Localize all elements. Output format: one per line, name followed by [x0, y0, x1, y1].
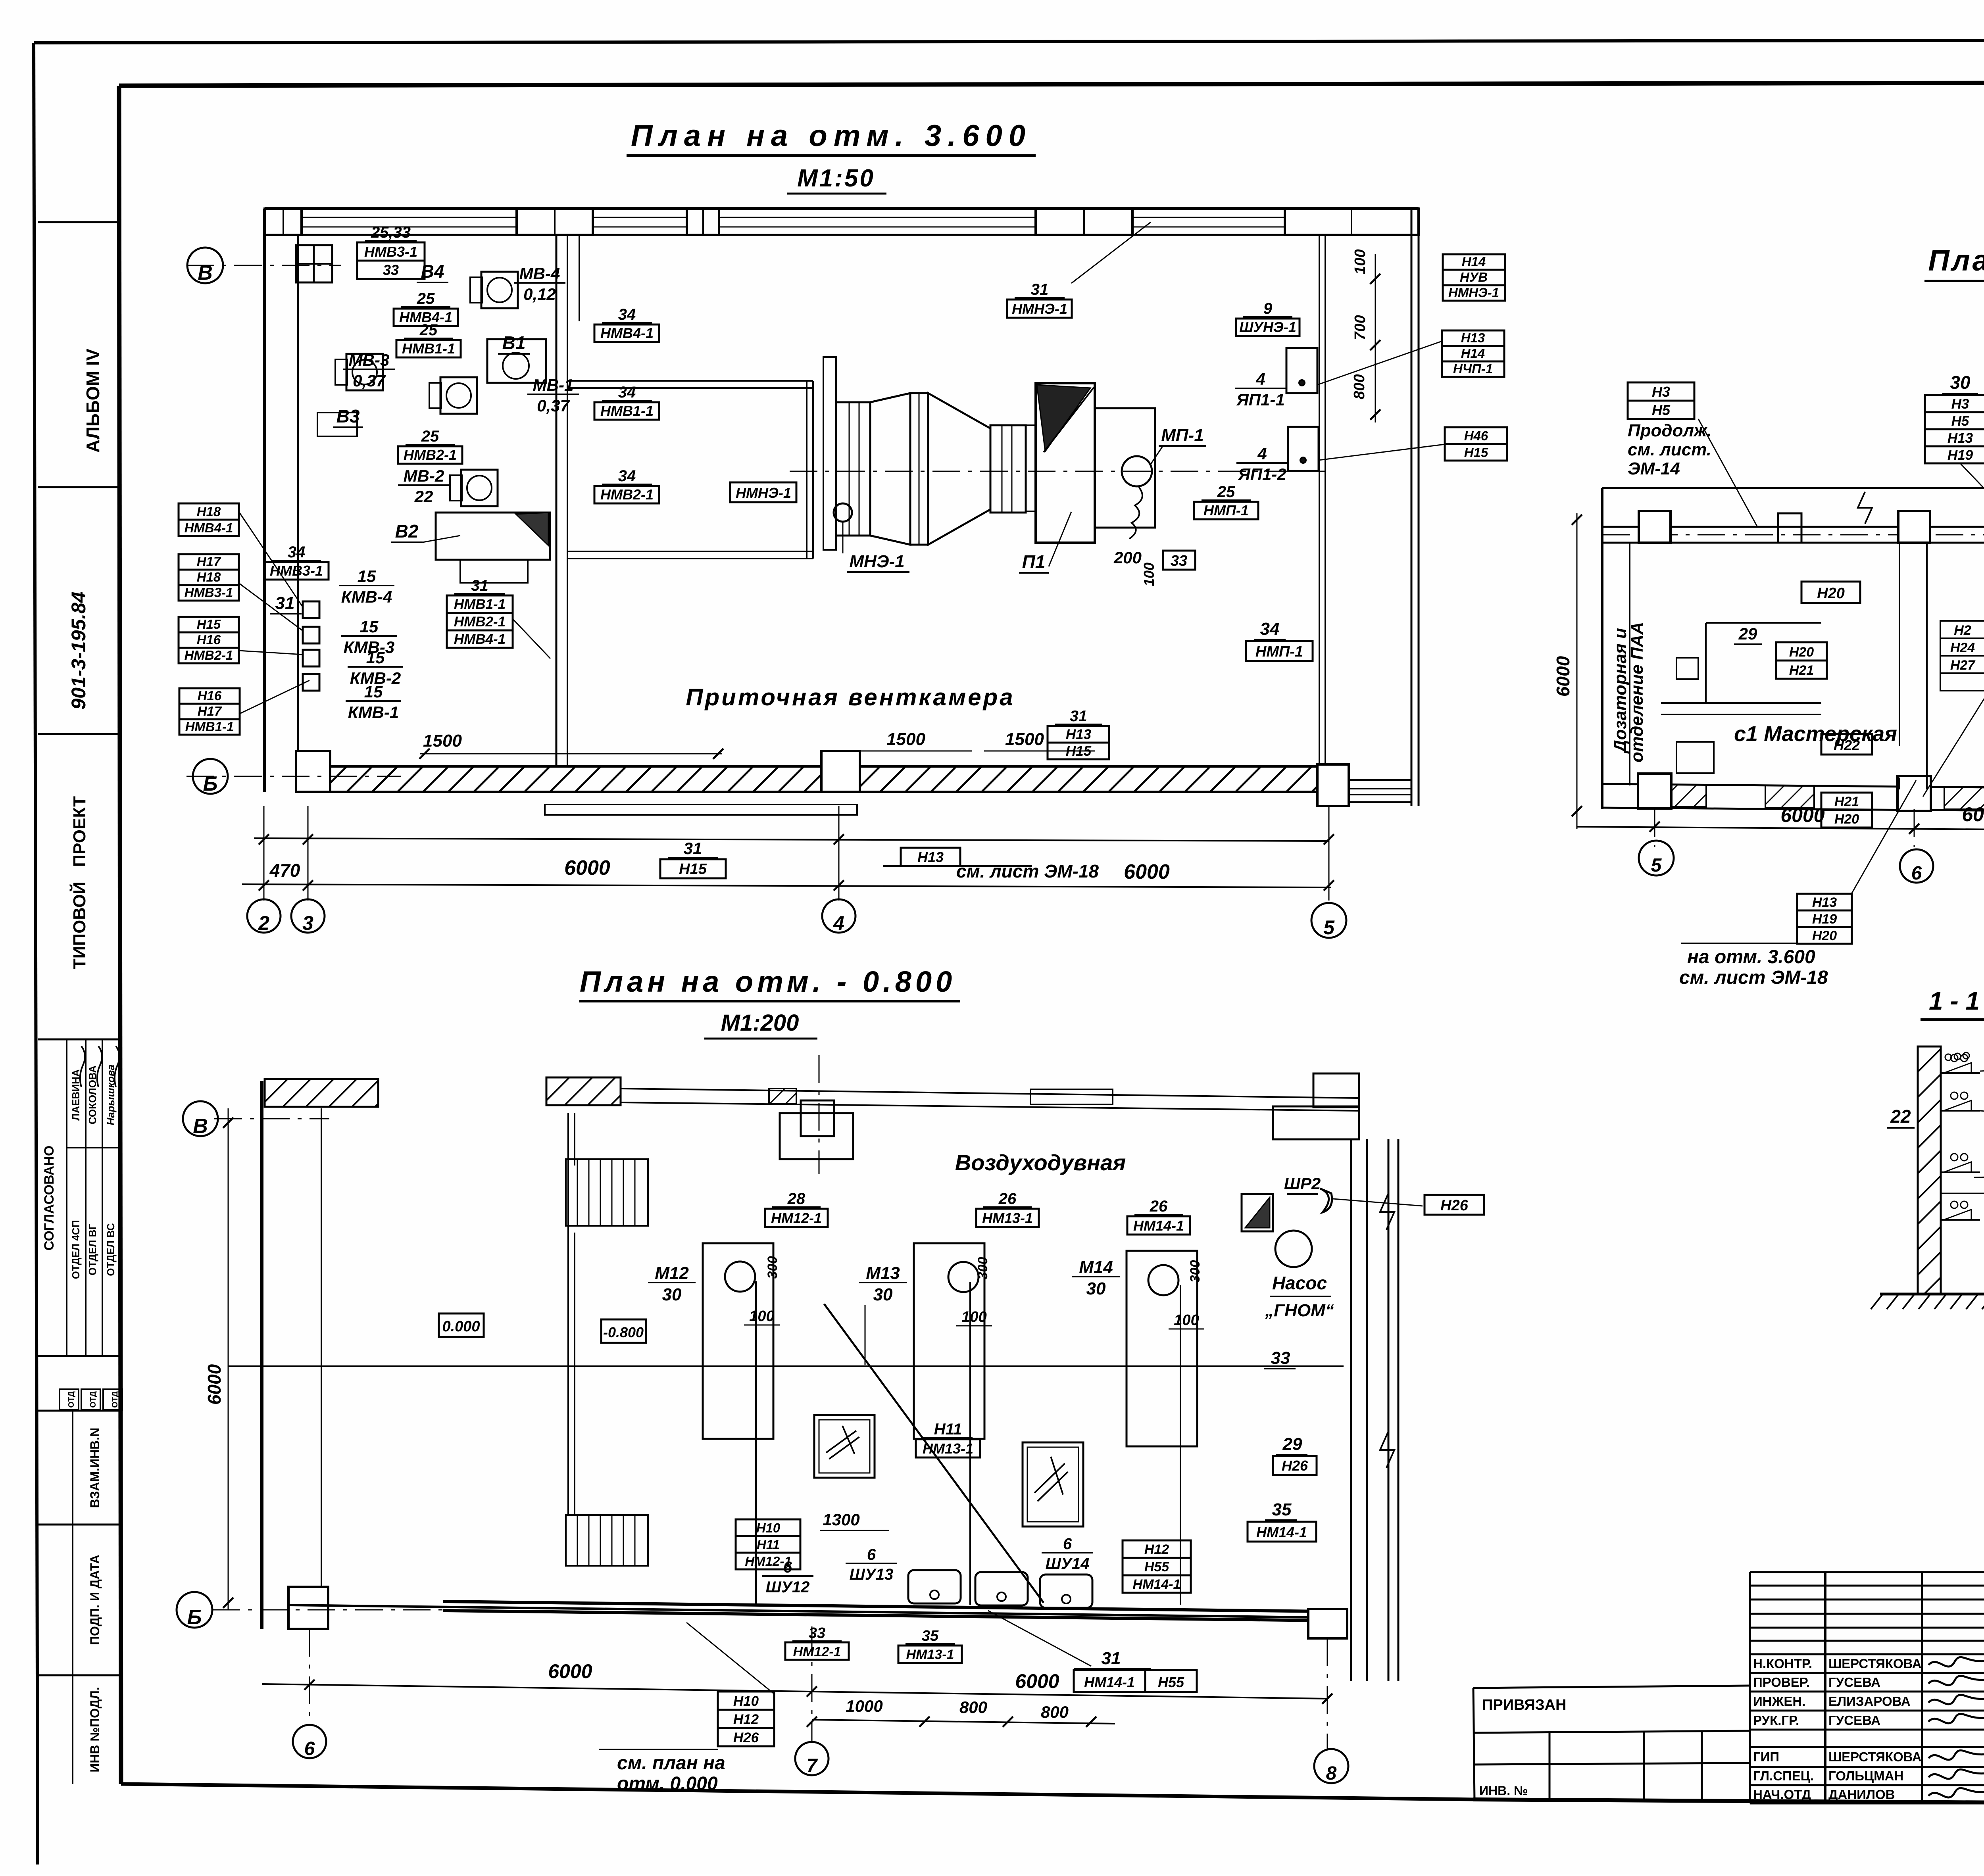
svg-text:0.000: 0.000 [442, 1318, 480, 1335]
svg-text:31: 31 [275, 593, 295, 613]
svg-text:31: 31 [1031, 281, 1049, 298]
svg-text:НМВ1-1: НМВ1-1 [454, 597, 506, 612]
svg-text:ШЕРСТЯКОВА: ШЕРСТЯКОВА [1828, 1656, 1922, 1671]
svg-text:Н15: Н15 [197, 617, 221, 632]
svg-text:28: 28 [787, 1190, 806, 1208]
svg-text:МВ-1: МВ-1 [533, 376, 574, 394]
svg-text:Н26: Н26 [733, 1730, 759, 1745]
svg-text:см. план на: см. план на [617, 1753, 725, 1774]
svg-text:НУВ: НУВ [1460, 270, 1488, 284]
svg-text:Н21: Н21 [1834, 794, 1859, 809]
svg-text:Б: Б [187, 1606, 202, 1629]
svg-text:3: 3 [302, 912, 313, 934]
svg-text:6000: 6000 [204, 1364, 225, 1405]
svg-text:300: 300 [1188, 1260, 1203, 1283]
svg-text:6000: 6000 [1124, 860, 1170, 883]
svg-text:ШУНЭ-1: ШУНЭ-1 [1239, 319, 1296, 335]
svg-text:НМП-1: НМП-1 [1255, 643, 1303, 660]
svg-text:0,37: 0,37 [537, 396, 570, 415]
svg-text:НМНЭ-1: НМНЭ-1 [736, 485, 791, 501]
svg-text:Н11: Н11 [757, 1537, 780, 1552]
svg-text:НМ12-1: НМ12-1 [771, 1210, 822, 1226]
svg-text:ИНВ. №: ИНВ. № [1479, 1784, 1528, 1798]
svg-text:Н55: Н55 [1158, 1674, 1184, 1690]
svg-text:30: 30 [662, 1285, 682, 1304]
svg-text:6000: 6000 [548, 1660, 592, 1682]
svg-text:35: 35 [1272, 1500, 1292, 1519]
svg-text:ЯП1-2: ЯП1-2 [1238, 465, 1286, 484]
svg-text:Н55: Н55 [1144, 1559, 1169, 1575]
svg-text:ГЛ.СПЕЦ.: ГЛ.СПЕЦ. [1753, 1768, 1814, 1783]
svg-text:НМВ4-1: НМВ4-1 [185, 520, 233, 535]
svg-text:НМНЭ-1: НМНЭ-1 [1012, 301, 1067, 317]
svg-text:34: 34 [288, 543, 306, 561]
svg-text:1 - 1: 1 - 1 [1929, 987, 1980, 1015]
svg-text:31: 31 [684, 839, 702, 858]
svg-text:План на отм. - 0.800: План на отм. - 0.800 [580, 965, 956, 998]
svg-text:НМВ3-1: НМВ3-1 [270, 563, 323, 579]
svg-text:НМНЭ-1: НМНЭ-1 [1448, 285, 1499, 300]
svg-text:НМВ1-1: НМВ1-1 [600, 403, 654, 419]
svg-text:5: 5 [1323, 916, 1335, 939]
svg-text:МВ-4: МВ-4 [519, 264, 560, 283]
svg-text:Н27: Н27 [1950, 658, 1976, 673]
svg-text:29: 29 [1738, 624, 1757, 643]
svg-text:НМ14-1: НМ14-1 [1133, 1577, 1181, 1592]
svg-text:„ГНОМ“: „ГНОМ“ [1265, 1301, 1334, 1320]
svg-text:25: 25 [421, 428, 439, 445]
svg-text:26: 26 [998, 1190, 1017, 1208]
svg-text:Н22: Н22 [1834, 737, 1860, 753]
svg-text:-0.800: -0.800 [603, 1324, 644, 1340]
svg-text:В: В [198, 261, 213, 284]
svg-text:26: 26 [1150, 1198, 1168, 1215]
svg-text:НМ14-1: НМ14-1 [1256, 1524, 1307, 1540]
svg-text:РУК.ГР.: РУК.ГР. [1753, 1713, 1799, 1728]
svg-text:НМВ4-1: НМВ4-1 [454, 632, 506, 647]
svg-text:34: 34 [1260, 619, 1280, 639]
svg-text:М1:50: М1:50 [797, 165, 875, 192]
svg-text:4: 4 [1255, 370, 1265, 388]
svg-text:100: 100 [1352, 249, 1369, 274]
svg-text:АЛЬБОМ IV: АЛЬБОМ IV [83, 348, 103, 453]
svg-text:Н20: Н20 [1817, 585, 1845, 602]
svg-text:П1: П1 [1022, 551, 1046, 572]
svg-text:15: 15 [364, 682, 383, 701]
svg-text:31: 31 [1102, 1649, 1121, 1668]
svg-text:4: 4 [833, 912, 844, 934]
svg-text:31: 31 [471, 577, 488, 594]
svg-text:ВЗАМ.ИНВ.N: ВЗАМ.ИНВ.N [88, 1428, 102, 1508]
svg-text:100: 100 [961, 1309, 986, 1325]
svg-text:В3: В3 [336, 406, 360, 426]
svg-text:1500: 1500 [423, 731, 462, 751]
svg-text:Н46: Н46 [1464, 428, 1488, 443]
svg-text:ШУ14: ШУ14 [1046, 1555, 1090, 1573]
svg-text:25: 25 [417, 290, 435, 307]
svg-text:ПОДП. И ДАТА: ПОДП. И ДАТА [88, 1555, 102, 1645]
svg-text:2: 2 [258, 912, 269, 934]
svg-text:Н15: Н15 [679, 861, 707, 878]
svg-text:300: 300 [975, 1257, 990, 1280]
svg-text:ГУСЕВА: ГУСЕВА [1828, 1713, 1880, 1728]
svg-text:33: 33 [383, 262, 399, 278]
svg-text:ОТД: ОТД [111, 1391, 119, 1408]
svg-text:100: 100 [749, 1308, 774, 1325]
svg-text:25: 25 [419, 321, 438, 339]
svg-text:Н5: Н5 [1951, 413, 1969, 429]
svg-text:НМВ3-1: НМВ3-1 [364, 244, 417, 260]
svg-text:Н24: Н24 [1950, 640, 1975, 655]
svg-text:М14: М14 [1079, 1258, 1113, 1277]
svg-text:Н12: Н12 [733, 1712, 759, 1727]
svg-text:6: 6 [867, 1546, 876, 1563]
svg-text:ТИПОВОЙ ПРОЕКТ: ТИПОВОЙ ПРОЕКТ [69, 796, 89, 969]
svg-text:отделение ПАА: отделение ПАА [1627, 622, 1647, 762]
svg-text:План на отм. 0.000: План на отм. 0.000 [1928, 244, 1984, 277]
svg-text:100: 100 [1174, 1312, 1199, 1329]
svg-text:4: 4 [1257, 444, 1267, 463]
svg-text:НАЧ.ОТД: НАЧ.ОТД [1753, 1787, 1811, 1802]
svg-text:см. лист.: см. лист. [1628, 440, 1711, 459]
svg-text:6: 6 [1063, 1535, 1072, 1553]
svg-text:НМ14-1: НМ14-1 [1133, 1217, 1184, 1234]
svg-text:В: В [193, 1115, 208, 1138]
svg-text:15: 15 [360, 617, 379, 636]
svg-text:Н14: Н14 [1462, 254, 1486, 269]
svg-text:Н3: Н3 [1652, 384, 1670, 400]
svg-text:Приточная венткамера: Приточная венткамера [686, 684, 1015, 710]
svg-text:Н26: Н26 [1440, 1197, 1469, 1214]
svg-text:34: 34 [618, 384, 636, 401]
svg-text:0,12: 0,12 [523, 285, 556, 303]
svg-text:ОТДЕЛ 4СП: ОТДЕЛ 4СП [70, 1220, 82, 1279]
svg-text:25,33: 25,33 [371, 224, 411, 241]
svg-text:Н19: Н19 [1947, 447, 1973, 463]
svg-text:ОТД: ОТД [89, 1391, 98, 1408]
svg-text:Н10: Н10 [733, 1694, 759, 1709]
svg-text:1500: 1500 [886, 730, 925, 749]
svg-text:Н17: Н17 [198, 704, 222, 718]
svg-text:М1:200: М1:200 [721, 1010, 799, 1036]
svg-text:МП-1: МП-1 [1161, 426, 1203, 445]
svg-text:300: 300 [765, 1256, 780, 1279]
svg-text:34: 34 [618, 467, 636, 485]
svg-text:ПРОВЕР.: ПРОВЕР. [1753, 1675, 1810, 1690]
svg-text:МВ-2: МВ-2 [404, 467, 444, 485]
svg-text:Н20: Н20 [1789, 645, 1814, 660]
svg-text:7: 7 [807, 1755, 818, 1776]
svg-text:Продолж.: Продолж. [1628, 421, 1711, 440]
svg-text:ШР2: ШР2 [1284, 1174, 1321, 1193]
svg-text:на отм. 3.600: на отм. 3.600 [1687, 947, 1815, 968]
svg-text:15: 15 [358, 567, 376, 586]
svg-text:НМ13-1: НМ13-1 [923, 1440, 973, 1457]
svg-text:НМВ1-1: НМВ1-1 [185, 719, 234, 734]
svg-text:34: 34 [618, 306, 636, 323]
svg-text:НМ12-1: НМ12-1 [793, 1644, 841, 1659]
svg-text:Н10: Н10 [756, 1521, 781, 1535]
svg-text:Н20: Н20 [1834, 812, 1859, 827]
svg-text:6: 6 [304, 1738, 315, 1759]
svg-text:Н12: Н12 [1144, 1542, 1169, 1557]
svg-text:ОТДЕЛ ВС: ОТДЕЛ ВС [105, 1223, 117, 1276]
svg-text:СОГЛАСОВАНО: СОГЛАСОВАНО [42, 1146, 57, 1251]
svg-text:НЧП-1: НЧП-1 [1453, 361, 1493, 376]
svg-text:Н13: Н13 [1066, 727, 1092, 742]
svg-text:Н13: Н13 [917, 849, 944, 865]
svg-text:ШЕРСТЯКОВА: ШЕРСТЯКОВА [1828, 1749, 1922, 1764]
svg-text:ГУСЕВА: ГУСЕВА [1828, 1675, 1880, 1690]
svg-text:отм. 0.000: отм. 0.000 [617, 1773, 718, 1794]
svg-text:М13: М13 [866, 1263, 900, 1283]
svg-text:6000: 6000 [1553, 656, 1573, 697]
svg-text:Н14: Н14 [1461, 346, 1485, 361]
svg-text:Н15: Н15 [1464, 445, 1488, 460]
svg-text:31: 31 [1070, 708, 1087, 725]
svg-text:800: 800 [1041, 1703, 1069, 1721]
svg-text:ДАНИЛОВ: ДАНИЛОВ [1828, 1787, 1895, 1802]
svg-text:Воздуходувная: Воздуходувная [955, 1150, 1126, 1175]
svg-text:30: 30 [1950, 372, 1971, 393]
svg-text:Н18: Н18 [197, 504, 221, 519]
svg-text:В1: В1 [502, 332, 526, 353]
svg-text:30: 30 [873, 1285, 893, 1304]
svg-text:НМВ3-1: НМВ3-1 [185, 585, 233, 600]
svg-text:ЭМ-14: ЭМ-14 [1628, 459, 1680, 478]
svg-text:800: 800 [959, 1698, 987, 1717]
svg-text:9: 9 [1263, 300, 1273, 317]
svg-text:НМВ4-1: НМВ4-1 [600, 325, 654, 341]
svg-text:Н3: Н3 [1951, 396, 1969, 412]
svg-text:33: 33 [1171, 553, 1187, 569]
svg-text:НМ13-1: НМ13-1 [906, 1647, 954, 1662]
svg-text:6000: 6000 [1780, 804, 1824, 826]
svg-text:Н13: Н13 [1812, 895, 1837, 910]
svg-text:М12: М12 [655, 1263, 689, 1283]
svg-text:29: 29 [1282, 1434, 1302, 1454]
svg-text:1500: 1500 [1005, 730, 1044, 749]
svg-text:6000: 6000 [1015, 1670, 1059, 1692]
svg-text:Н16: Н16 [198, 688, 222, 703]
svg-text:Н5: Н5 [1652, 402, 1671, 418]
svg-text:НМП-1: НМП-1 [1203, 502, 1249, 518]
svg-text:Н11: Н11 [934, 1421, 962, 1438]
svg-text:22: 22 [1890, 1106, 1911, 1127]
svg-text:Н19: Н19 [1812, 912, 1837, 927]
svg-text:Н21: Н21 [1789, 663, 1814, 678]
svg-text:ШУ12: ШУ12 [766, 1578, 810, 1596]
svg-text:6: 6 [1911, 863, 1922, 884]
svg-text:ИНЖЕН.: ИНЖЕН. [1753, 1694, 1805, 1709]
svg-text:1300: 1300 [823, 1510, 859, 1529]
svg-text:КМВ-4: КМВ-4 [341, 588, 392, 606]
svg-text:ШУ13: ШУ13 [850, 1566, 894, 1583]
svg-text:ЕЛИЗАРОВА: ЕЛИЗАРОВА [1828, 1694, 1911, 1709]
svg-text:Н2: Н2 [1954, 623, 1971, 638]
svg-text:НМВ2-1: НМВ2-1 [185, 648, 233, 662]
svg-text:1000: 1000 [846, 1697, 882, 1715]
svg-text:25: 25 [1217, 483, 1235, 501]
svg-text:Н.КОНТР.: Н.КОНТР. [1753, 1656, 1812, 1671]
svg-text:8: 8 [1326, 1763, 1337, 1784]
svg-text:100: 100 [1141, 563, 1157, 586]
svg-text:Н16: Н16 [197, 632, 221, 647]
svg-text:ГИП: ГИП [1753, 1749, 1779, 1764]
svg-text:Н13: Н13 [1461, 330, 1485, 345]
svg-text:НМВ2-1: НМВ2-1 [600, 486, 654, 503]
svg-text:НМ13-1: НМ13-1 [982, 1210, 1033, 1226]
svg-text:НМВ2-1: НМВ2-1 [454, 614, 506, 630]
svg-text:6000: 6000 [564, 856, 610, 879]
svg-text:6000: 6000 [1962, 803, 1984, 826]
svg-text:НМ12-1: НМ12-1 [745, 1554, 791, 1569]
svg-text:см. лист ЭМ-18: см. лист ЭМ-18 [956, 861, 1099, 881]
svg-text:30: 30 [1086, 1279, 1106, 1298]
svg-text:700: 700 [1352, 315, 1369, 340]
svg-text:200: 200 [1113, 548, 1142, 567]
svg-text:МВ-3: МВ-3 [349, 351, 390, 369]
svg-text:Насос: Насос [1272, 1273, 1327, 1293]
svg-text:План на отм. 3.600: План на отм. 3.600 [631, 119, 1032, 153]
svg-text:22: 22 [414, 487, 433, 506]
svg-text:ПРИВЯЗАН: ПРИВЯЗАН [1482, 1697, 1566, 1713]
svg-text:33: 33 [809, 1625, 825, 1642]
svg-text:Н18: Н18 [197, 570, 221, 584]
svg-text:НМВ1-1: НМВ1-1 [402, 340, 455, 357]
svg-text:В4: В4 [421, 261, 444, 282]
svg-text:901-3-195.84: 901-3-195.84 [67, 591, 90, 709]
svg-text:НМ14-1: НМ14-1 [1084, 1674, 1135, 1690]
svg-text:5: 5 [1651, 855, 1662, 876]
svg-text:Н17: Н17 [197, 554, 221, 569]
svg-text:0,37: 0,37 [353, 371, 386, 390]
svg-text:ОТДЕЛ ВГ: ОТДЕЛ ВГ [87, 1224, 98, 1276]
svg-text:Б: Б [203, 772, 218, 795]
svg-text:Н13: Н13 [1947, 430, 1973, 446]
svg-text:В2: В2 [395, 521, 419, 541]
svg-text:33: 33 [1271, 1348, 1290, 1368]
svg-text:Н26: Н26 [1282, 1457, 1308, 1474]
svg-text:КМВ-1: КМВ-1 [348, 703, 399, 722]
svg-text:15: 15 [366, 648, 385, 667]
svg-text:ЯП1-1: ЯП1-1 [1236, 390, 1285, 409]
svg-text:ОТД: ОТД [67, 1391, 76, 1408]
svg-text:ГОЛЬЦМАН: ГОЛЬЦМАН [1828, 1768, 1903, 1783]
svg-text:см. лист ЭМ-18: см. лист ЭМ-18 [1679, 967, 1828, 988]
svg-text:Н20: Н20 [1812, 928, 1837, 943]
svg-text:НМВ2-1: НМВ2-1 [404, 447, 457, 463]
svg-text:470: 470 [269, 860, 300, 881]
svg-text:ИНВ №ПОДЛ.: ИНВ №ПОДЛ. [88, 1687, 102, 1772]
svg-text:800: 800 [1351, 374, 1368, 399]
svg-text:35: 35 [922, 1628, 939, 1644]
svg-text:МНЭ-1: МНЭ-1 [849, 552, 904, 571]
